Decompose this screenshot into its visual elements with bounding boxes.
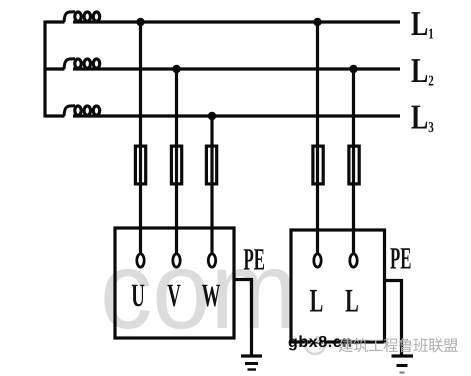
label U — [131, 278, 145, 314]
label L (right terminal of single-phase box) — [345, 284, 359, 320]
wire drop W from L3 — [210, 116, 213, 254]
ground right — [392, 356, 414, 373]
fuse FU5 — [349, 146, 359, 184]
label L (left terminal of single-phase box) — [310, 284, 324, 320]
label PE right — [390, 241, 411, 276]
svg-text:V: V — [167, 278, 181, 314]
wire phase line L2 — [45, 67, 400, 70]
inductor winding 1 — [64, 12, 101, 22]
svg-text:L1: L1 — [411, 4, 434, 43]
junction node L2-V — [172, 65, 180, 73]
junction node L1-right — [313, 18, 321, 26]
inductor winding 2 — [64, 59, 101, 69]
single-phase load box — [291, 230, 385, 342]
terminal U — [137, 254, 144, 267]
net label L2 — [411, 51, 434, 90]
wire PE right — [385, 281, 402, 355]
label V — [167, 278, 181, 314]
fuse FU1 — [135, 146, 145, 184]
three-phase load box — [115, 228, 234, 338]
svg-text:L: L — [345, 284, 359, 320]
svg-text:PE: PE — [244, 242, 265, 277]
wire phase line L1 — [45, 20, 400, 23]
svg-text:L2: L2 — [411, 51, 434, 90]
terminal W — [208, 254, 215, 267]
wire left neutral bus — [43, 21, 46, 118]
wire PE left — [234, 280, 252, 355]
wire drop V from L2 — [175, 69, 178, 254]
fuse FU3 — [206, 146, 216, 184]
junction node L2-right — [349, 65, 357, 73]
watermark — [100, 229, 297, 352]
fuse FU2 — [171, 146, 181, 184]
svg-text:建筑工程鲁班联盟: 建筑工程鲁班联盟 — [338, 337, 458, 355]
wire phase line L3 — [45, 114, 400, 117]
label W — [202, 278, 221, 314]
wire drop right L from L1 — [316, 22, 319, 254]
svg-text:PE: PE — [390, 241, 411, 276]
footer logo — [306, 337, 325, 354]
footer watermark text — [338, 337, 458, 355]
inductor winding 3 — [64, 106, 101, 116]
svg-text:L: L — [310, 284, 324, 320]
fuse FU4 — [313, 146, 323, 184]
svg-text:W: W — [202, 278, 221, 314]
junction node L1-U — [136, 18, 144, 26]
svg-text:com: com — [100, 229, 297, 352]
terminal L right — [350, 254, 357, 267]
label PE left — [244, 242, 265, 277]
net label L1 — [411, 4, 434, 43]
svg-text:L3: L3 — [411, 98, 434, 137]
wire drop U from L1 — [139, 22, 142, 254]
ground left — [241, 356, 262, 370]
wire drop right L from L2 — [352, 69, 355, 254]
footer site text gbx8.cn — [288, 334, 353, 351]
junction node L3-W — [208, 112, 216, 120]
svg-text:U: U — [131, 278, 145, 314]
terminal L left — [314, 254, 321, 267]
net label L3 — [411, 98, 434, 137]
terminal V — [173, 254, 180, 267]
